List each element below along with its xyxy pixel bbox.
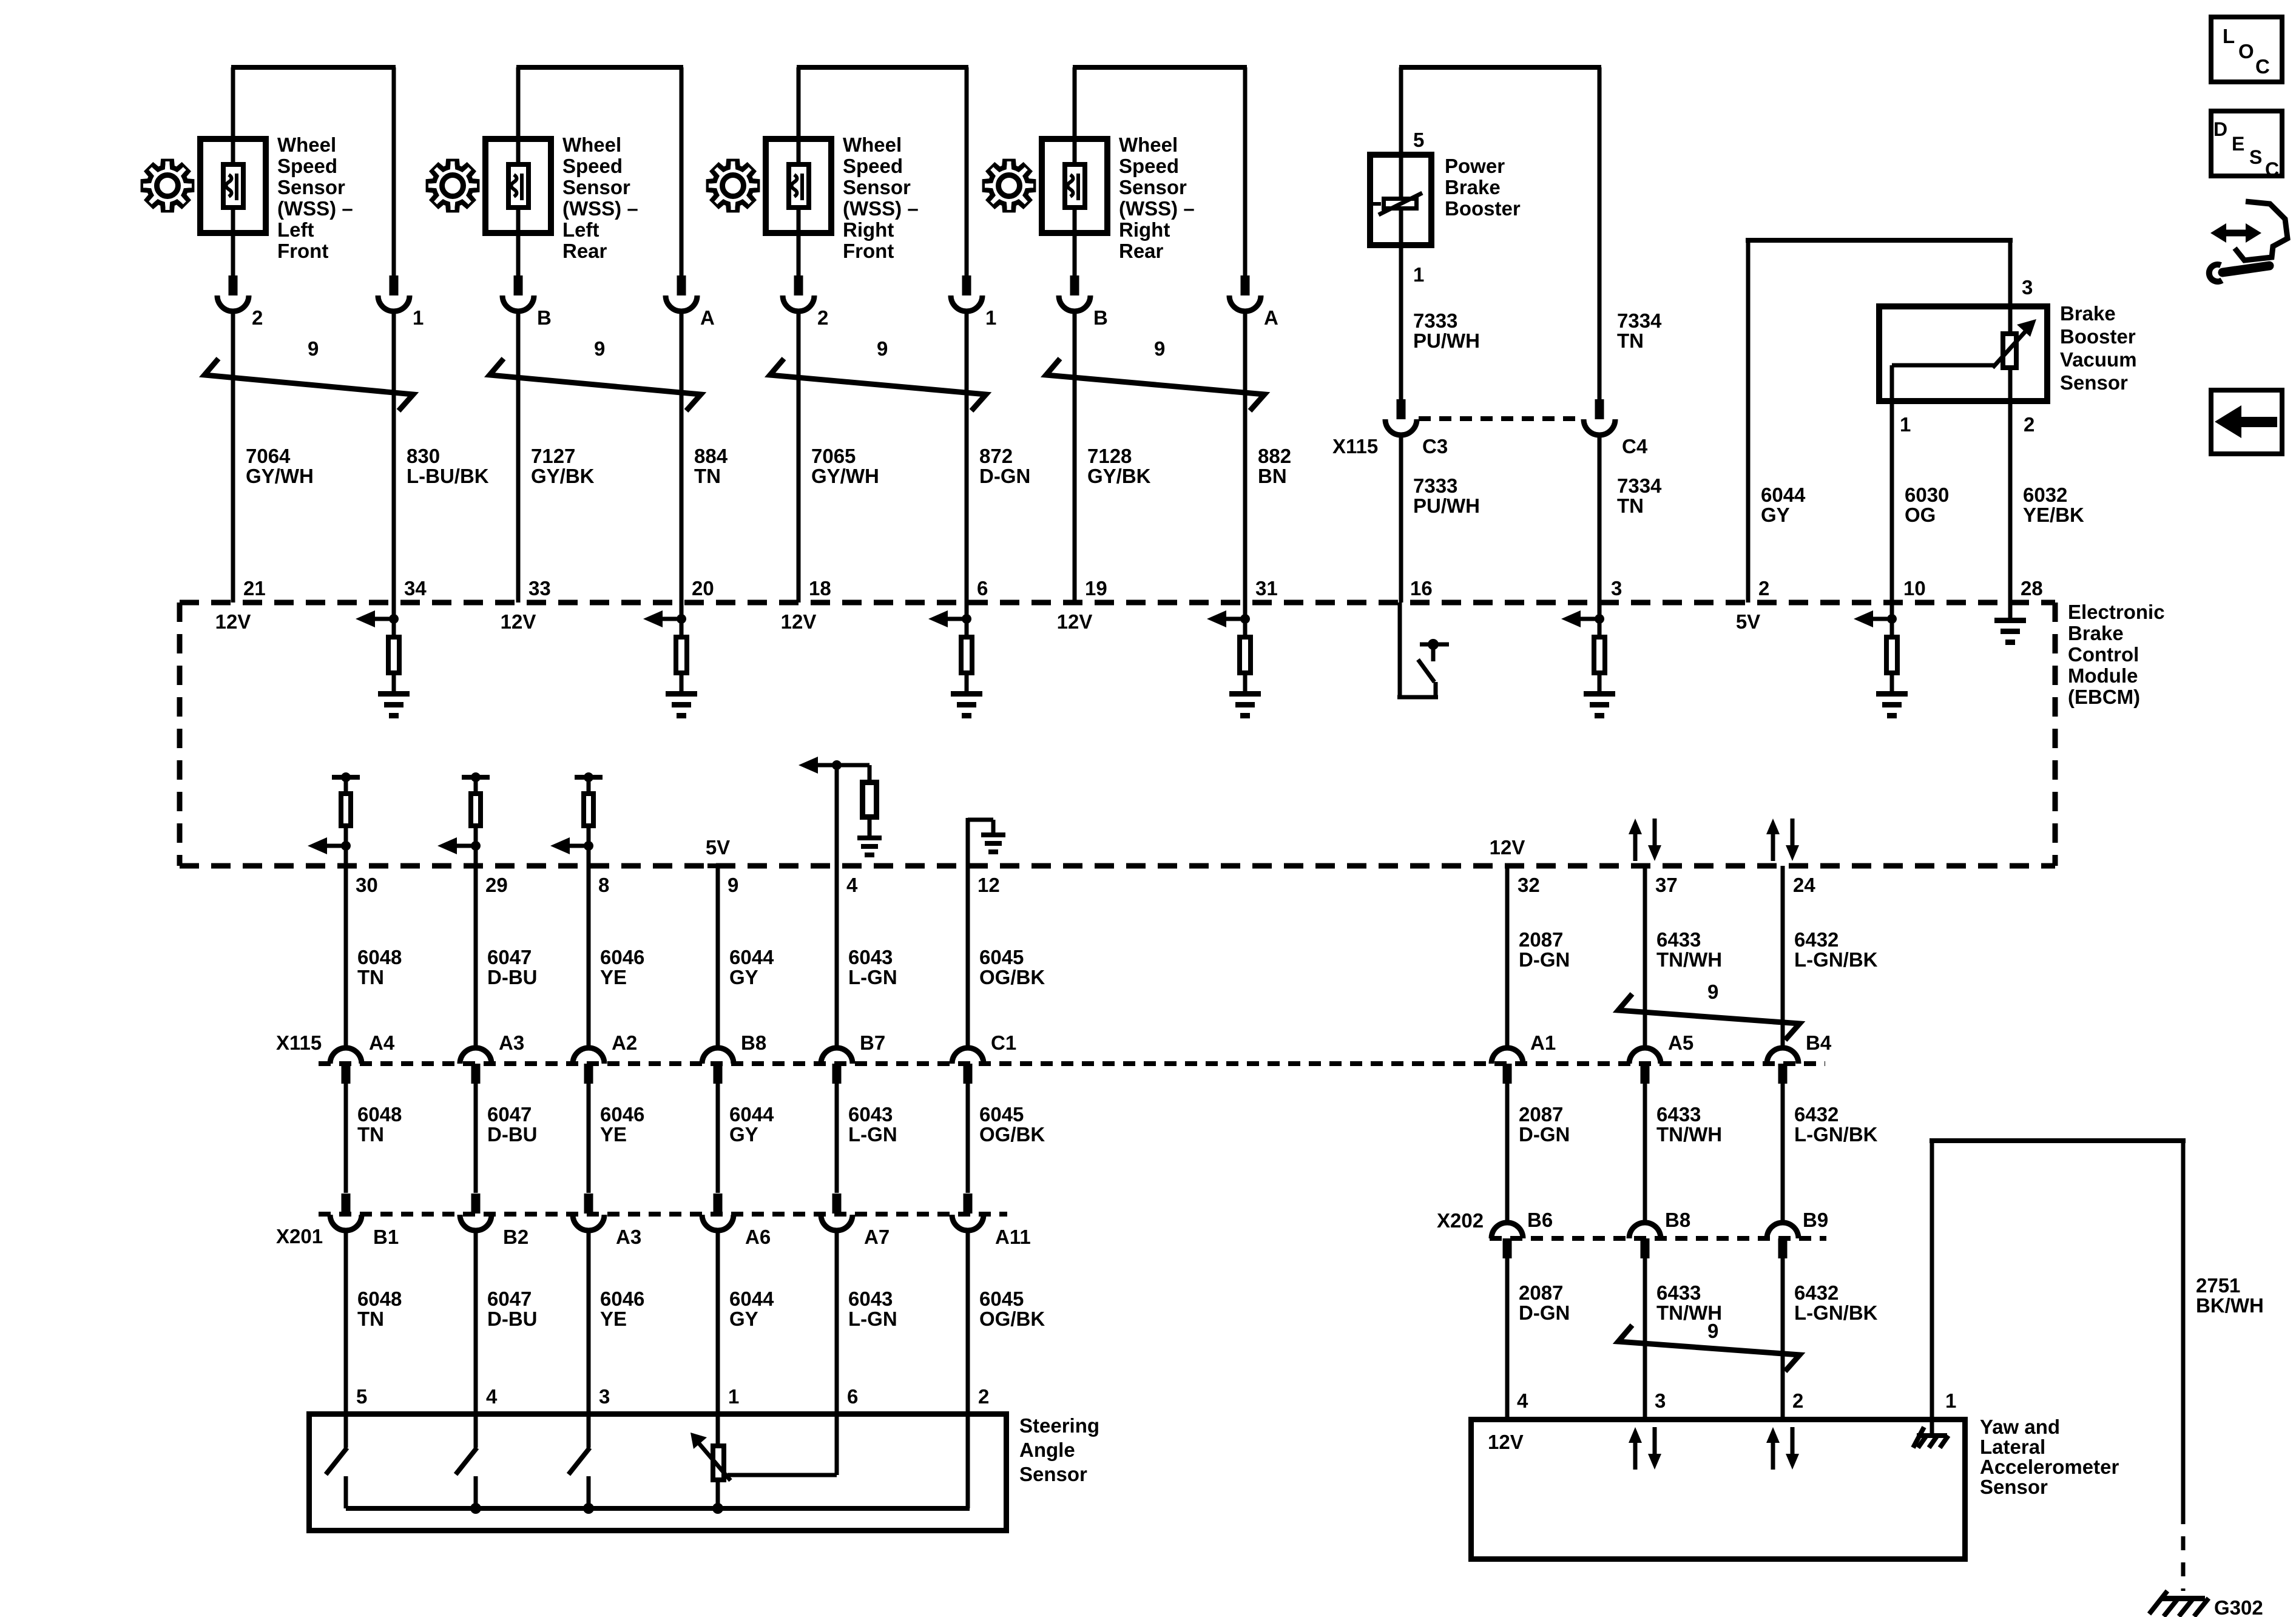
svg-text:2: 2 [2024, 413, 2034, 436]
svg-text:7128: 7128 [1087, 445, 1132, 467]
svg-text:1: 1 [413, 306, 424, 329]
svg-text:Sensor: Sensor [1019, 1463, 1087, 1485]
svg-text:6432: 6432 [1794, 928, 1838, 951]
vacuum sensor pin 2 wire 6032 YE/BK [2008, 401, 2013, 603]
svg-text:2: 2 [978, 1385, 989, 1408]
svg-text:6432: 6432 [1794, 1103, 1838, 1126]
svg-text:PU/WH: PU/WH [1413, 329, 1480, 352]
svg-text:Module: Module [2068, 664, 2138, 687]
svg-text:OG/BK: OG/BK [979, 966, 1045, 988]
svg-text:B8: B8 [1665, 1209, 1690, 1231]
wire 6048 TN upper [344, 866, 348, 1048]
wire 6433 TN/WH upper [1643, 866, 1647, 1048]
X201 connector B1 [342, 1193, 351, 1214]
svg-text:2: 2 [817, 306, 828, 329]
svg-text:TN: TN [357, 1308, 384, 1330]
yaw sensor box [1471, 1420, 1965, 1559]
EBCM resistor under pin 10 [1890, 603, 1894, 635]
wire 2087 D-GN below X202 B6 [1505, 1258, 1510, 1420]
WSS 2 gear icon [428, 161, 478, 211]
svg-text:12V: 12V [1057, 610, 1093, 633]
svg-text:12V: 12V [501, 610, 536, 633]
WSS 3 gear icon [709, 161, 758, 211]
steering sensor wire pin 2 to bus [966, 1414, 970, 1508]
svg-text:3: 3 [1611, 577, 1622, 599]
EBCM pull-up resistor above pin 8 [575, 775, 603, 780]
svg-text:Angle: Angle [1019, 1439, 1075, 1461]
svg-text:B2: B2 [503, 1226, 528, 1248]
potentiometer wiper wire [728, 1473, 837, 1477]
svg-text:Control: Control [2068, 643, 2139, 666]
svg-text:6433: 6433 [1656, 1103, 1701, 1126]
WSS 2 wire pin B [516, 67, 521, 278]
EBCM input resistor under pin 6 [965, 603, 969, 635]
svg-text:6045: 6045 [979, 1288, 1024, 1310]
svg-text:Front: Front [277, 240, 328, 262]
ground near pin 4 [857, 836, 882, 840]
svg-text:34: 34 [404, 577, 427, 599]
svg-text:7127: 7127 [531, 445, 575, 467]
PBB wire 7333 PU/WH upper [1399, 245, 1403, 399]
wheel speed sensor B1 coil symbol [223, 164, 243, 208]
svg-text:Right: Right [843, 218, 894, 241]
svg-text:872: 872 [979, 445, 1013, 467]
yaw sensor serial arrows pin 3 [1633, 1440, 1638, 1470]
wire 6433 TN/WH below X115 A5 [1643, 1084, 1647, 1223]
wheel speed sensor B3 box [766, 139, 831, 233]
svg-text:GY/WH: GY/WH [246, 465, 314, 487]
svg-text:Left: Left [562, 218, 599, 241]
svg-text:Speed: Speed [562, 155, 623, 177]
svg-text:A3: A3 [499, 1031, 524, 1054]
svg-text:X115: X115 [1332, 435, 1378, 457]
svg-text:2087: 2087 [1519, 1281, 1563, 1304]
svg-text:GY/WH: GY/WH [811, 465, 879, 487]
wire 6432 L-GN/BK upper [1781, 866, 1785, 1048]
svg-text:C: C [2265, 158, 2279, 180]
svg-text:6048: 6048 [357, 946, 402, 968]
svg-text:29: 29 [485, 874, 508, 896]
X202 connector B8 [1629, 1223, 1661, 1238]
svg-text:30: 30 [356, 874, 378, 896]
svg-text:TN: TN [1617, 495, 1644, 517]
EBCM brake switch symbol under pin 16 [1398, 603, 1402, 697]
WSS 4 pigtail connector pin B [1070, 275, 1079, 295]
svg-text:3: 3 [599, 1385, 610, 1408]
svg-text:B4: B4 [1806, 1031, 1832, 1054]
WSS 4 wire pin A [1243, 67, 1248, 278]
X201 connector A3 [584, 1193, 593, 1214]
svg-text:6047: 6047 [487, 1288, 532, 1310]
svg-text:TN/WH: TN/WH [1656, 948, 1722, 971]
wire 2087 D-GN below X115 A1 [1505, 1084, 1510, 1223]
svg-text:Brake: Brake [2060, 302, 2116, 325]
svg-text:Electronic: Electronic [2068, 601, 2165, 623]
svg-text:2: 2 [1792, 1389, 1803, 1412]
svg-text:1: 1 [985, 306, 996, 329]
svg-text:X201: X201 [276, 1225, 323, 1247]
LOC icon box [2211, 17, 2282, 82]
WSS 1 twisted pair symbol 9 [204, 359, 413, 411]
WSS 3 wire 7065 [797, 311, 801, 603]
svg-text:D-GN: D-GN [1519, 948, 1570, 971]
svg-text:4: 4 [846, 874, 858, 896]
yaw sensor serial arrows pin 2 [1771, 1440, 1775, 1470]
svg-text:A: A [700, 306, 715, 329]
svg-text:8: 8 [598, 874, 609, 896]
X115 connector C3 [1397, 399, 1406, 419]
svg-text:6047: 6047 [487, 1103, 532, 1126]
EBCM box top dashed edge [180, 600, 2055, 606]
X115 connector B4 [1767, 1048, 1798, 1064]
svg-text:(WSS) –: (WSS) – [277, 197, 353, 220]
EBCM box left dashed edge [177, 603, 183, 866]
WSS 1 wire 830 [392, 311, 396, 603]
wire 6045 OG/BK upper [966, 866, 970, 1048]
wire to vacuum sensor pin 3 [2008, 240, 2013, 306]
wire 6043 L-GN below X115 B7 [835, 1084, 839, 1193]
svg-text:A6: A6 [745, 1226, 771, 1248]
connector-repair icon (arrow and wrench) [2224, 230, 2248, 237]
svg-text:Sensor: Sensor [843, 176, 911, 198]
WSS 2 pigtail connector pin B [514, 275, 523, 295]
steering angle sensor switch at wire 784 [474, 1414, 478, 1448]
svg-text:5V: 5V [1736, 610, 1760, 633]
svg-text:882: 882 [1258, 445, 1291, 467]
wire 6432 L-GN/BK below X202 B9 [1781, 1258, 1785, 1420]
svg-text:A2: A2 [612, 1031, 637, 1054]
wire 6432 L-GN/BK below X115 B4 [1781, 1084, 1785, 1223]
svg-text:7334: 7334 [1617, 309, 1662, 332]
svg-text:9: 9 [308, 337, 319, 360]
svg-text:2: 2 [252, 306, 263, 329]
EBCM input resistor under pin 20 [680, 603, 684, 635]
X115 connector C4 [1595, 399, 1604, 419]
steering angle sensor box [309, 1414, 1007, 1531]
wire 6044 GY below X115 B8 [716, 1084, 720, 1193]
svg-text:Wheel: Wheel [1119, 133, 1178, 156]
svg-text:Vacuum: Vacuum [2060, 348, 2137, 371]
X115 connector A5 [1629, 1048, 1661, 1064]
wire 6046 YE below X115 A2 [587, 1084, 591, 1193]
svg-text:2751: 2751 [2196, 1274, 2240, 1297]
svg-text:C1: C1 [991, 1031, 1016, 1054]
svg-text:1: 1 [728, 1385, 739, 1408]
svg-text:Brake: Brake [1445, 176, 1501, 198]
svg-text:3: 3 [1655, 1389, 1666, 1412]
ground under pin 10 [1876, 691, 1908, 697]
svg-text:24: 24 [1793, 874, 1815, 896]
svg-text:6048: 6048 [357, 1103, 402, 1126]
svg-text:Steering: Steering [1019, 1414, 1099, 1437]
svg-text:GY: GY [729, 1308, 758, 1330]
steering angle sensor switch at wire 970 [587, 1414, 591, 1448]
ground under pin 6 [951, 691, 982, 697]
WSS 3 top jumper wire [797, 65, 968, 70]
EBCM input resistor under pin 34 [392, 603, 396, 635]
5V supply wire 6044 GY [1746, 238, 1751, 603]
X201 connector row dashed line [319, 1212, 1007, 1217]
svg-text:BN: BN [1258, 465, 1287, 487]
svg-text:Brake: Brake [2068, 622, 2124, 644]
svg-text:L: L [2223, 25, 2235, 47]
svg-text:(EBCM): (EBCM) [2068, 686, 2140, 708]
WSS 4 wire 7128 [1073, 311, 1077, 603]
svg-text:D-BU: D-BU [487, 1308, 537, 1330]
WSS 1 top jumper wire [231, 65, 396, 70]
svg-text:1: 1 [1413, 263, 1424, 286]
wire 6047 D-BU upper [474, 866, 478, 1048]
svg-text:C3: C3 [1422, 435, 1448, 457]
PBB vacuum switch symbol [1399, 155, 1403, 245]
svg-text:Wheel: Wheel [843, 133, 902, 156]
PBB wire pin 5 [1399, 67, 1403, 155]
svg-text:BK/WH: BK/WH [2196, 1294, 2264, 1317]
X202 connector row dashed line [1490, 1236, 1826, 1241]
WSS 3 pigtail connector pin 1 [962, 275, 971, 295]
steering angle sensor switch at wire 570 [344, 1414, 348, 1448]
svg-text:6433: 6433 [1656, 1281, 1701, 1304]
svg-text:X115: X115 [276, 1031, 322, 1054]
WSS 2 top jumper wire [516, 65, 683, 70]
wire 6433 TN/WH below X202 B8 [1643, 1258, 1647, 1420]
X115 connector A4 [330, 1048, 362, 1064]
svg-text:GY: GY [1761, 504, 1790, 526]
svg-text:Yaw and: Yaw and [1980, 1416, 2060, 1438]
svg-text:6044: 6044 [729, 946, 774, 968]
svg-text:16: 16 [1410, 577, 1433, 599]
svg-text:12V: 12V [1488, 1431, 1524, 1453]
ground under pin 34 [378, 691, 410, 697]
wire 6047 D-BU below X201 B2 [474, 1230, 478, 1414]
X115 connector B7 [821, 1048, 853, 1064]
svg-text:6044: 6044 [729, 1103, 774, 1126]
back arrow icon box [2211, 390, 2282, 454]
svg-text:Right: Right [1119, 218, 1170, 241]
wire 6047 D-BU below X115 A3 [474, 1084, 478, 1193]
svg-text:Booster: Booster [2060, 325, 2136, 348]
svg-text:Power: Power [1445, 155, 1505, 177]
svg-text:(WSS) –: (WSS) – [843, 197, 919, 220]
wire 6044 GY upper [716, 866, 720, 1048]
svg-text:B1: B1 [373, 1226, 399, 1248]
svg-text:6047: 6047 [487, 946, 532, 968]
svg-text:4: 4 [1517, 1389, 1528, 1412]
svg-text:L-BU/BK: L-BU/BK [407, 465, 489, 487]
WSS 2 wire pin A [680, 67, 684, 278]
svg-text:B: B [537, 306, 552, 329]
wheel speed sensor B3 coil symbol [789, 164, 809, 208]
EBCM box right dashed edge [2053, 603, 2058, 866]
WSS 3 wire pin 1 [965, 67, 969, 278]
svg-text:TN: TN [357, 1123, 384, 1146]
yaw sensor internal chassis ground [1917, 1433, 1947, 1438]
svg-text:B7: B7 [860, 1031, 885, 1054]
svg-text:Accelerometer: Accelerometer [1980, 1456, 2119, 1478]
WSS 1 gear icon [143, 161, 192, 211]
svg-text:L-GN/BK: L-GN/BK [1794, 948, 1878, 971]
wire 6048 TN below X201 B1 [344, 1230, 348, 1414]
WSS 3 pigtail connector pin 2 [794, 275, 803, 295]
wheel speed sensor B2 coil symbol [508, 164, 528, 208]
svg-text:Sensor: Sensor [562, 176, 630, 198]
svg-text:28: 28 [2021, 577, 2043, 599]
svg-text:9: 9 [1707, 981, 1718, 1003]
svg-text:E: E [2232, 133, 2244, 155]
svg-text:6: 6 [847, 1385, 858, 1408]
svg-text:C4: C4 [1622, 435, 1648, 457]
wire 6046 YE upper [587, 866, 591, 1048]
svg-text:Booster: Booster [1445, 197, 1521, 220]
svg-text:A5: A5 [1668, 1031, 1693, 1054]
svg-text:A1: A1 [1530, 1031, 1556, 1054]
EBCM resistor under pin 3 [1598, 603, 1602, 635]
svg-text:OG: OG [1905, 504, 1936, 526]
svg-text:Lateral: Lateral [1980, 1436, 2045, 1458]
X202 connector B6 [1491, 1223, 1523, 1238]
twisted pair symbol 9 lower right [1618, 1325, 1800, 1371]
svg-text:Sensor: Sensor [277, 176, 345, 198]
svg-text:X202: X202 [1437, 1209, 1484, 1232]
WSS 1 wire pin 2 [231, 67, 235, 278]
svg-text:12V: 12V [1490, 836, 1525, 859]
svg-text:GY/BK: GY/BK [531, 465, 595, 487]
ground under pin 31 [1229, 691, 1261, 697]
WSS 2 wire 7127 [516, 311, 521, 603]
svg-text:5: 5 [356, 1385, 367, 1408]
power brake booster top jumper wire [1399, 65, 1601, 70]
svg-text:D-BU: D-BU [487, 966, 537, 988]
svg-text:B6: B6 [1527, 1209, 1553, 1231]
svg-text:A11: A11 [995, 1226, 1031, 1248]
svg-text:Rear: Rear [562, 240, 607, 262]
WSS 4 wire 882 [1243, 311, 1248, 603]
svg-text:L-GN: L-GN [848, 1308, 897, 1330]
X201 connector A7 [832, 1193, 842, 1214]
svg-text:C: C [2255, 55, 2270, 78]
yaw sensor ground wire pin 1 [1930, 1141, 1934, 1433]
wheel speed sensor B1 box [200, 139, 266, 233]
WSS 4 pigtail connector pin A [1241, 275, 1250, 295]
X115 connector row dashed line [319, 1061, 1825, 1066]
svg-text:9: 9 [1707, 1320, 1718, 1342]
svg-text:9: 9 [594, 337, 605, 360]
WSS 2 twisted pair symbol 9 [490, 359, 701, 411]
svg-text:7065: 7065 [811, 445, 856, 467]
svg-text:5V: 5V [706, 836, 730, 859]
svg-text:TN: TN [694, 465, 721, 487]
svg-text:G302: G302 [2214, 1596, 2263, 1617]
svg-text:Wheel: Wheel [277, 133, 336, 156]
svg-text:10: 10 [1903, 577, 1926, 599]
WSS 4 gear icon [985, 161, 1034, 211]
svg-text:D-GN: D-GN [979, 465, 1030, 487]
svg-text:L-GN: L-GN [848, 1123, 897, 1146]
wire 6046 YE below X201 A3 [587, 1230, 591, 1414]
svg-text:6043: 6043 [848, 1103, 893, 1126]
wheel speed sensor B4 box [1042, 139, 1107, 233]
svg-text:Sensor: Sensor [1980, 1476, 2048, 1498]
svg-text:Speed: Speed [1119, 155, 1179, 177]
svg-text:Speed: Speed [277, 155, 337, 177]
svg-text:D-BU: D-BU [487, 1123, 537, 1146]
ground under pin 28 [2008, 603, 2013, 620]
power brake booster box [1370, 155, 1431, 245]
svg-text:A3: A3 [616, 1226, 641, 1248]
wire 2087 D-GN upper [1505, 866, 1510, 1048]
steering angle sensor potentiometer [716, 1414, 720, 1508]
svg-text:33: 33 [528, 577, 551, 599]
svg-text:7333: 7333 [1413, 309, 1457, 332]
svg-text:2087: 2087 [1519, 928, 1563, 951]
EBCM serial data arrows pin 37 [1633, 832, 1638, 861]
wire 6043 L-GN below X201 A7 [835, 1230, 839, 1414]
svg-text:19: 19 [1085, 577, 1107, 599]
vacuum sensor feed run [1746, 238, 2013, 243]
brake booster vacuum sensor box [1879, 306, 2047, 401]
X202 connector B9 [1767, 1223, 1798, 1238]
wire 6043 L-GN upper [835, 765, 839, 1048]
vacuum sensor pin 1 wire 6030 OG [1890, 365, 1894, 603]
wheel speed sensor B4 coil symbol [1065, 164, 1085, 208]
svg-text:A7: A7 [864, 1226, 890, 1248]
svg-text:12V: 12V [781, 610, 817, 633]
svg-text:6: 6 [977, 577, 988, 599]
svg-text:YE: YE [600, 1308, 627, 1330]
WSS 2 pigtail connector pin A [677, 275, 686, 295]
svg-text:A: A [1264, 306, 1278, 329]
svg-text:6046: 6046 [600, 1288, 644, 1310]
wire 2751 dashed segment to ground [2181, 1510, 2186, 1591]
svg-text:6433: 6433 [1656, 928, 1701, 951]
svg-text:YE: YE [600, 1123, 627, 1146]
svg-text:GY: GY [729, 966, 758, 988]
svg-text:L-GN/BK: L-GN/BK [1794, 1123, 1878, 1146]
ground under pin 3 [1584, 691, 1615, 697]
WSS 1 pigtail connector pin 2 [229, 275, 238, 295]
svg-text:6030: 6030 [1905, 484, 1949, 506]
EBCM serial data arrows pin 24 [1771, 832, 1775, 861]
svg-text:884: 884 [694, 445, 728, 467]
svg-text:4: 4 [486, 1385, 498, 1408]
svg-text:L-GN: L-GN [848, 966, 897, 988]
X115 C3-C4 dashed connector line [1419, 416, 1582, 421]
wheel speed sensor B2 box [485, 139, 551, 233]
wire 7334 TN lower [1598, 434, 1602, 603]
svg-text:1: 1 [1945, 1389, 1956, 1412]
svg-text:YE: YE [600, 966, 627, 988]
svg-text:6046: 6046 [600, 946, 644, 968]
WSS 4 top jumper wire [1073, 65, 1247, 70]
svg-text:6045: 6045 [979, 946, 1024, 968]
X115 connector A1 [1491, 1048, 1523, 1064]
EBCM pull-up resistor above pin 30 [332, 775, 360, 780]
ground G302 [2161, 1596, 2205, 1601]
wire 6045 OG/BK below X201 A11 [966, 1230, 970, 1414]
svg-text:Wheel: Wheel [562, 133, 621, 156]
svg-text:37: 37 [1655, 874, 1678, 896]
svg-text:32: 32 [1518, 874, 1540, 896]
svg-text:9: 9 [877, 337, 888, 360]
X115 connector C1 [952, 1048, 984, 1064]
svg-text:OG/BK: OG/BK [979, 1123, 1045, 1146]
svg-text:Front: Front [843, 240, 894, 262]
svg-text:6044: 6044 [1761, 484, 1806, 506]
wire 2751 BK/WH [1930, 1138, 2186, 1143]
EBCM pull-down resistor near pin 4 [832, 760, 842, 770]
svg-text:D: D [2213, 118, 2227, 140]
svg-text:Rear: Rear [1119, 240, 1164, 262]
